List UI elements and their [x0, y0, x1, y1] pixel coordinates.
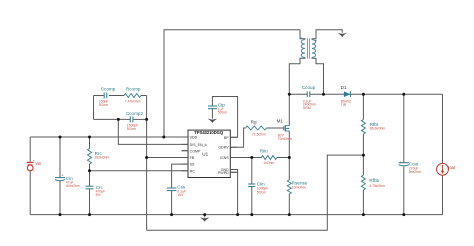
svg-text:+: + [62, 173, 64, 177]
svg-text:Ccomp2: Ccomp2 [126, 111, 144, 116]
svg-text:GDRV: GDRV [218, 146, 229, 150]
svg-text:M1: M1 [277, 118, 284, 123]
svg-text:Ccomp: Ccomp [101, 86, 116, 91]
svg-text:BP: BP [224, 136, 229, 140]
svg-text:40mOhm: 40mOhm [66, 184, 80, 188]
svg-text:Rg: Rg [251, 119, 257, 124]
svg-text:DIS_EN_b: DIS_EN_b [190, 143, 207, 147]
svg-text:Rfbb: Rfbb [369, 178, 379, 183]
svg-text:Ccoup: Ccoup [302, 85, 316, 90]
svg-text:ISNS: ISNS [220, 156, 229, 160]
svg-text:TPS40210DGQ: TPS40210DGQ [194, 130, 223, 135]
svg-text:+: + [399, 161, 401, 165]
svg-text:5%: 5% [96, 193, 101, 197]
svg-text:8mOhm: 8mOhm [409, 170, 421, 174]
svg-text:Riin: Riin [260, 148, 268, 153]
svg-text:COMP: COMP [190, 149, 201, 153]
svg-text:5Ohm: 5Ohm [257, 190, 266, 194]
svg-text:86.6kOhm: 86.6kOhm [370, 127, 386, 131]
svg-text:5Ohm: 5Ohm [218, 111, 227, 115]
svg-text:5Ohm: 5Ohm [99, 103, 108, 107]
svg-text:RC: RC [190, 169, 196, 173]
svg-text:FB: FB [190, 156, 195, 160]
svg-text:GRM: GRM [303, 106, 311, 110]
svg-text:71.5Ohm: 71.5Ohm [252, 132, 266, 136]
svg-text:D1: D1 [341, 85, 347, 90]
svg-text:70mOhm: 70mOhm [278, 137, 292, 141]
svg-text:PWPD: PWPD [218, 171, 229, 175]
svg-text:Rcomp: Rcomp [126, 86, 141, 91]
svg-text:16V: 16V [177, 193, 184, 197]
svg-text:1kOhm: 1kOhm [263, 161, 274, 165]
svg-text:Vin: Vin [35, 161, 42, 166]
svg-text:4.75kOhm: 4.75kOhm [369, 184, 385, 188]
svg-text:7.47kOhm: 7.47kOhm [125, 99, 141, 103]
svg-text:SS: SS [190, 163, 195, 167]
svg-text:5Ohm: 5Ohm [127, 127, 136, 131]
svg-text:T/R: T/R [341, 103, 347, 107]
svg-text:Iout: Iout [448, 165, 456, 170]
svg-text:VDD: VDD [190, 136, 198, 140]
svg-text:U1: U1 [202, 151, 208, 156]
svg-text:10mOhm: 10mOhm [292, 186, 306, 190]
svg-text:332kOhm: 332kOhm [95, 156, 110, 160]
